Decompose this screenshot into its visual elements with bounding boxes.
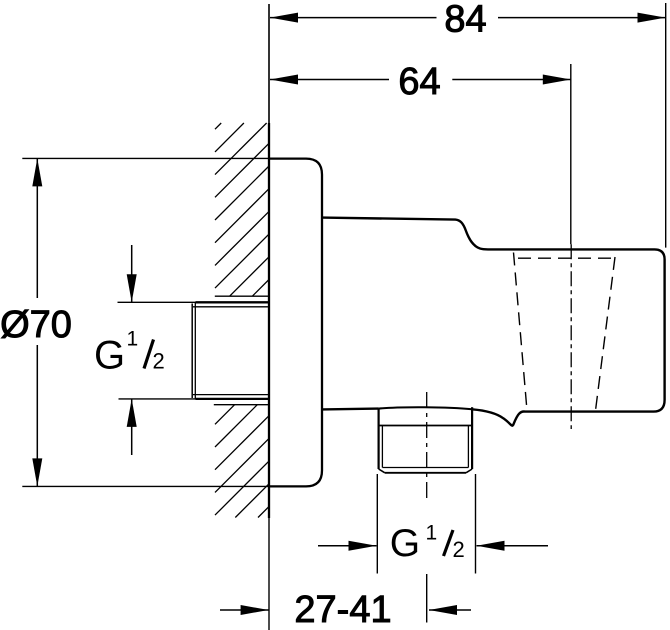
- svg-text:64: 64: [398, 61, 440, 103]
- svg-text:1: 1: [426, 521, 438, 544]
- holder cup centerline: [570, 244, 572, 429]
- holder cup hidden lines (dashed): [514, 253, 616, 411]
- dimension 64: [270, 61, 571, 103]
- svg-text:Ø70: Ø70: [0, 304, 72, 346]
- extension line right for 64: [570, 64, 572, 244]
- dimension 84: [270, 0, 666, 41]
- svg-text:2: 2: [153, 349, 165, 374]
- flange outline: [269, 159, 322, 487]
- dimension 27-41: [220, 589, 471, 630]
- G1/2 inlet label: [94, 328, 165, 378]
- extension line for 27-41 (outlet axis): [426, 574, 428, 623]
- outlet centerline: [426, 392, 428, 503]
- wall hole lower boundary: [214, 404, 269, 406]
- wall hatching upper band: [215, 123, 269, 296]
- svg-text:1: 1: [127, 328, 139, 351]
- svg-text:G: G: [94, 334, 125, 378]
- extension line right for 84: [665, 3, 667, 248]
- G1/2 outlet extension lines: [377, 474, 475, 574]
- G1/2 inlet dimension arrows: [127, 245, 137, 455]
- inlet nipple G1/2 thread: [192, 302, 268, 399]
- outlet G1/2 thread: [379, 407, 473, 473]
- wall line: [268, 4, 270, 630]
- wall hatching lower band: [215, 405, 269, 518]
- svg-text:27-41: 27-41: [294, 589, 391, 630]
- extension line top for diameter 70: [22, 157, 269, 159]
- body outline with holder: [322, 218, 665, 426]
- extension line bottom for diameter 70: [22, 485, 269, 487]
- dimension diameter 70: [0, 158, 72, 486]
- svg-text:G: G: [390, 522, 420, 565]
- G1/2 outlet label: [390, 521, 465, 565]
- wall hole upper boundary: [215, 295, 269, 297]
- G1/2 outlet dimension arrows: [318, 541, 548, 551]
- svg-text:2: 2: [453, 537, 465, 562]
- G1/2 inlet extension lines: [118, 302, 196, 399]
- svg-text:84: 84: [444, 0, 486, 41]
